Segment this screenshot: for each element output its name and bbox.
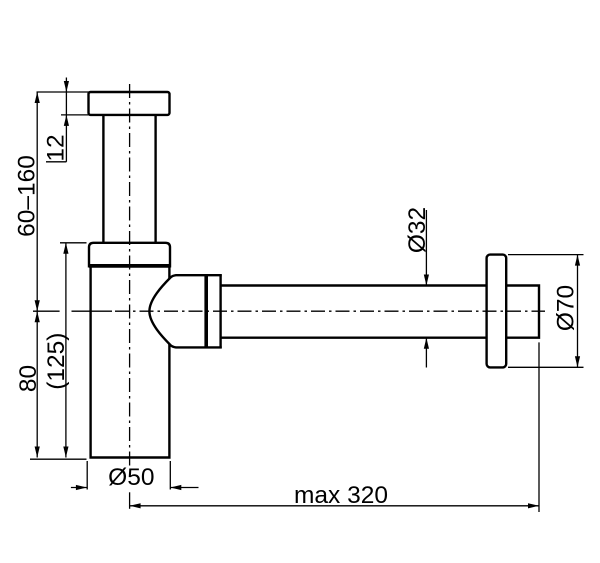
arrow left at x129 xyxy=(130,503,141,508)
arrow down at y457 xyxy=(63,447,68,458)
extension line pipe axis (y=311.2) xyxy=(33,310,60,312)
dimension 50 left tail xyxy=(71,487,87,489)
trap body cylinder xyxy=(91,268,170,458)
arrow up at y92 xyxy=(35,92,40,103)
extension line body right (Ø50) xyxy=(169,461,171,490)
arrow left at x170.3 xyxy=(170,485,181,490)
elbow nut right edge xyxy=(219,274,221,348)
extension line trap axis bottom (max320 left) xyxy=(129,492,131,509)
svg-text:Ø32: Ø32 xyxy=(404,207,431,253)
extension line flange bottom (y=114.9) xyxy=(61,114,100,116)
arrow down at y457 xyxy=(35,447,40,458)
extension line wall stub (max320 right) xyxy=(538,342,540,512)
trap flange thick seam xyxy=(89,264,170,268)
arrow up at y242 xyxy=(63,243,68,254)
dimension 12 shelf xyxy=(46,161,66,163)
horizontal pipe bottom edge xyxy=(221,337,488,339)
dimension line (125) xyxy=(65,243,67,458)
dimension line O70 xyxy=(577,255,579,368)
extension line flange top (y=92) xyxy=(37,91,90,93)
arrow right at x86.9 xyxy=(76,485,87,490)
extension line trap flange top (y=242.8) xyxy=(60,242,87,244)
extension line flange bottom right (y=367.3) xyxy=(508,366,584,368)
svg-text:Ø50: Ø50 xyxy=(108,464,154,491)
svg-text:60–160: 60–160 xyxy=(14,155,41,237)
arrow up at flange bottom xyxy=(64,115,69,126)
arrow up at pipe bottom xyxy=(424,338,429,349)
trap top flange xyxy=(89,243,170,268)
arrow up at y254 xyxy=(575,255,580,266)
wall-side pipe stub xyxy=(506,286,539,338)
vertical tube left edge xyxy=(102,115,104,243)
extension line body left (Ø50) xyxy=(86,461,88,490)
elbow outlet (bullet shape, white fill covers body edge) xyxy=(149,275,221,347)
vertical centerline xyxy=(129,84,131,466)
horizontal pipe top edge xyxy=(221,284,488,286)
svg-text:80: 80 xyxy=(15,365,42,392)
arrow down at y367 xyxy=(575,356,580,367)
arrow right at x539 xyxy=(528,503,539,508)
wall flange xyxy=(487,255,507,368)
dimension line 60-160 / 80 xyxy=(36,92,38,458)
arrow up at y311 xyxy=(35,311,40,322)
arrow down at flange top xyxy=(64,81,69,92)
elbow nut thick rib xyxy=(204,274,208,348)
extension line flange top right (y=254.6) xyxy=(508,254,584,256)
svg-text:Ø70: Ø70 xyxy=(552,285,579,331)
arrow down at y311 xyxy=(35,300,40,311)
svg-text:max 320: max 320 xyxy=(294,482,388,509)
top flange xyxy=(89,92,170,115)
dimension 32 upper line xyxy=(425,210,427,286)
svg-text:(125): (125) xyxy=(43,333,70,390)
vertical tube right edge xyxy=(154,115,156,243)
arrow down at pipe top xyxy=(424,275,429,286)
svg-text:12: 12 xyxy=(43,134,70,161)
dimension 50 right tail xyxy=(170,487,198,489)
extension line body bottom (y=457.5) xyxy=(30,458,87,460)
dimension line max 320 xyxy=(130,505,539,507)
dimension 32 lower line xyxy=(425,338,427,368)
horizontal centerline xyxy=(115,310,545,312)
dimension 12 line xyxy=(65,78,67,162)
